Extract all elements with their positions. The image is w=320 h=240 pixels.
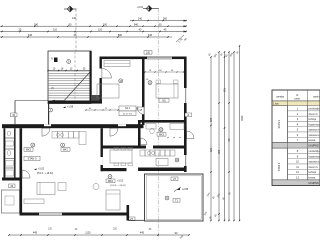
bottom dimension chain [9,234,189,236]
left thick wall lower [20,128,23,215]
svg-text:MK3: MK3 [26,148,32,151]
wall stub down to terrace [127,205,130,221]
svg-text:(P.N.K. + 28.62): (P.N.K. + 28.62) [37,173,53,175]
svg-text:+3.02: +3.02 [38,168,45,171]
label box corridor S4.1 [119,106,136,111]
UKUPNO row 1 [272,143,320,149]
pillar in stair landing [54,58,58,63]
wall under stairs left [48,104,49,125]
ticks at tops of right chains [210,56,211,57]
stairwell outline [48,51,91,104]
svg-text:+1.98: +1.98 [67,106,74,109]
svg-text:446: 446 [28,34,33,37]
svg-text:240: 240 [34,23,39,26]
bottom exterior wall [20,213,128,216]
dim ticks bathroom [167,137,168,138]
svg-text:420: 420 [223,88,226,93]
dim ticks row corridor [85,109,142,111]
svg-text:dnevni b.: dnevni b. [309,113,319,116]
stair direction arrow [52,100,64,102]
stair right wall [90,51,92,104]
dimension chain line D4 [0,36,172,38]
svg-text:STAN 4: STAN 4 [278,162,281,171]
dim row bedroom2 [145,71,185,73]
armchair [58,183,66,191]
svg-text:1.kat: 1.kat [273,103,279,106]
kitchen table [156,159,168,166]
svg-text:br.: br. [296,94,299,97]
vertical wall mid lower block [101,128,103,171]
svg-text:940: 940 [134,23,139,26]
balcony furniture [5,196,14,205]
dimension chain line D1 (top) [130,20,187,22]
label T1 terrace [173,199,180,203]
window W-right2 [184,155,187,166]
STAN 3 label [24,156,40,160]
svg-text:MK3: MK3 [159,133,165,136]
svg-text:STAN 3: STAN 3 [28,157,37,161]
svg-text:spavaca s.: spavaca s. [309,161,320,164]
balcony outline bottom-left [2,190,20,213]
vertical wall left of kitchen [138,123,141,149]
svg-text:naziv prostorije: naziv prostorije [313,96,320,99]
ticks on top dimension chains [1,26,2,27]
right vertical dimension chains [210,57,212,221]
stair axis dashed [74,51,76,103]
svg-text:160: 160 [217,150,220,155]
exterior door arc on right wall [187,131,195,139]
room schedule table [272,90,320,192]
porch outline top [15,100,48,102]
bed bedroom 1 [97,84,119,98]
kitchen/livingroom lower wall [101,168,127,171]
ticks at bottoms of right chains [210,220,211,221]
balcony door opening in bottom wall [39,213,62,216]
window W-right1 [184,88,187,103]
label (2T) terrace top [171,177,178,181]
nightstands bedroom2 [156,80,161,84]
svg-text:S4.1: S4.1 [125,108,130,110]
terrace level flag +2.88 [177,188,180,190]
svg-text:1120: 1120 [85,232,91,235]
level marker LM1 [64,6,77,12]
kitchen counter row [140,150,175,156]
svg-text:11.17 m2: 11.17 m2 [123,113,133,115]
window label (20) left [11,113,18,117]
stair diagonal [62,72,90,103]
circled number bedroom1 [119,79,123,83]
coffee table [93,184,99,190]
wc fixtures left strip [7,131,11,136]
circled number terrace [165,196,169,200]
level marker LM2 [143,6,159,12]
terrace outline [145,174,204,221]
svg-text:N: N [51,58,53,61]
kitchen counters apartment3 [52,132,79,139]
svg-text:220: 220 [146,51,151,54]
table floor band 1.kat [272,101,320,106]
dining table apartment4 [110,150,132,163]
bed lower middle room [106,190,120,210]
UKUPNO row 2 [272,180,320,186]
svg-text:oznaka: oznaka [276,96,284,99]
stair top dim row [48,70,91,72]
svg-text:110: 110 [53,29,58,32]
window label (220) above top wall [144,51,152,55]
svg-text:446: 446 [148,34,153,37]
sofa apartment3 [37,183,55,195]
dimension chain line D2 [0,25,187,27]
STAN 4 group cell [272,148,288,180]
small partitions left strip [5,137,15,139]
svg-text:445: 445 [140,232,145,235]
door arc central wall [137,107,145,115]
tv cabinet [24,199,44,204]
label (2I) right wall [185,113,192,117]
wardrobe bedroom1 [104,61,130,67]
svg-text:MK1: MK1 [63,148,69,151]
circled room number stair [67,60,71,64]
svg-text:(P.N.K. + 28.62): (P.N.K. + 28.62) [110,185,126,187]
svg-text:360: 360 [163,18,168,21]
svg-text:kupaonica: kupaonica [309,155,320,158]
door arc kitchen [141,138,148,145]
svg-text:STAN 2: STAN 2 [278,119,281,128]
svg-text:spavaca s.: spavaca s. [309,134,320,137]
label (2T) bottom [128,217,135,221]
svg-text:+0.00: +0.00 [137,7,144,9]
STAN 2 group cell [272,106,288,143]
kitchen wall [101,146,187,149]
svg-text:terasa: terasa [309,139,316,142]
svg-text:spavaca s.: spavaca s. [309,129,320,132]
svg-text:kupaonica: kupaonica [309,123,320,126]
svg-text:445: 445 [33,232,38,235]
svg-text:120: 120 [209,118,212,123]
window label (20) left lower [9,184,16,188]
svg-text:140: 140 [138,18,143,21]
table outer border [272,90,320,185]
svg-text:kuhinja: kuhinja [309,118,317,121]
svg-text:predsoblje: predsoblje [309,150,320,153]
door arc upper block left wall [102,69,112,79]
svg-text:predsoblje: predsoblje [309,108,320,111]
svg-text:2I: 2I [187,114,189,117]
top exterior wall [100,57,187,60]
left wall of upper block [100,57,102,69]
window W-top in top wall [147,57,172,60]
svg-text:kuhinja: kuhinja [309,171,317,174]
label M1 bedroom2 [159,99,169,103]
central vertical wall [142,59,145,125]
svg-text:890: 890 [118,34,123,37]
left outer wall lower strip [4,128,6,178]
bed bedroom2 [156,84,178,98]
svg-text:300: 300 [103,23,108,26]
svg-text:1230: 1230 [240,115,243,121]
stair bottom wall [48,101,102,104]
svg-text:terasa: terasa [309,176,316,179]
svg-text:prost.: prost. [295,97,301,100]
labels apartment4 lower room [108,175,112,179]
stair treads [48,71,91,103]
labels apartment3 [31,143,35,147]
main vertical axis line through plan [158,9,160,238]
svg-text:+2.88: +2.88 [182,188,189,191]
svg-text:UKUPNO: UKUPNO [309,182,319,185]
table header row [272,90,320,101]
left partition x14.5 [14,128,16,178]
svg-text:375: 375 [209,148,212,153]
wall y178 left [2,178,22,181]
bathroom fixtures [146,124,156,130]
svg-text:dnevni b.: dnevni b. [309,166,319,169]
svg-text:+3.02: +3.02 [117,180,124,183]
upper bathroom wall B [138,120,187,123]
right exterior wall [184,57,187,173]
svg-text:UKUPNO: UKUPNO [309,145,319,148]
door arcs lower rooms [22,170,30,178]
table group STAN 4 rows [288,148,308,153]
main horizontal wall (corridor) [2,124,144,128]
svg-text:110: 110 [98,29,103,32]
left outer wall upper [14,101,16,125]
axis line below LM1 [75,9,77,51]
dimension chain line D3 [0,31,187,33]
table group STAN 2 rows [288,106,308,111]
svg-text:MK2: MK2 [108,180,114,183]
